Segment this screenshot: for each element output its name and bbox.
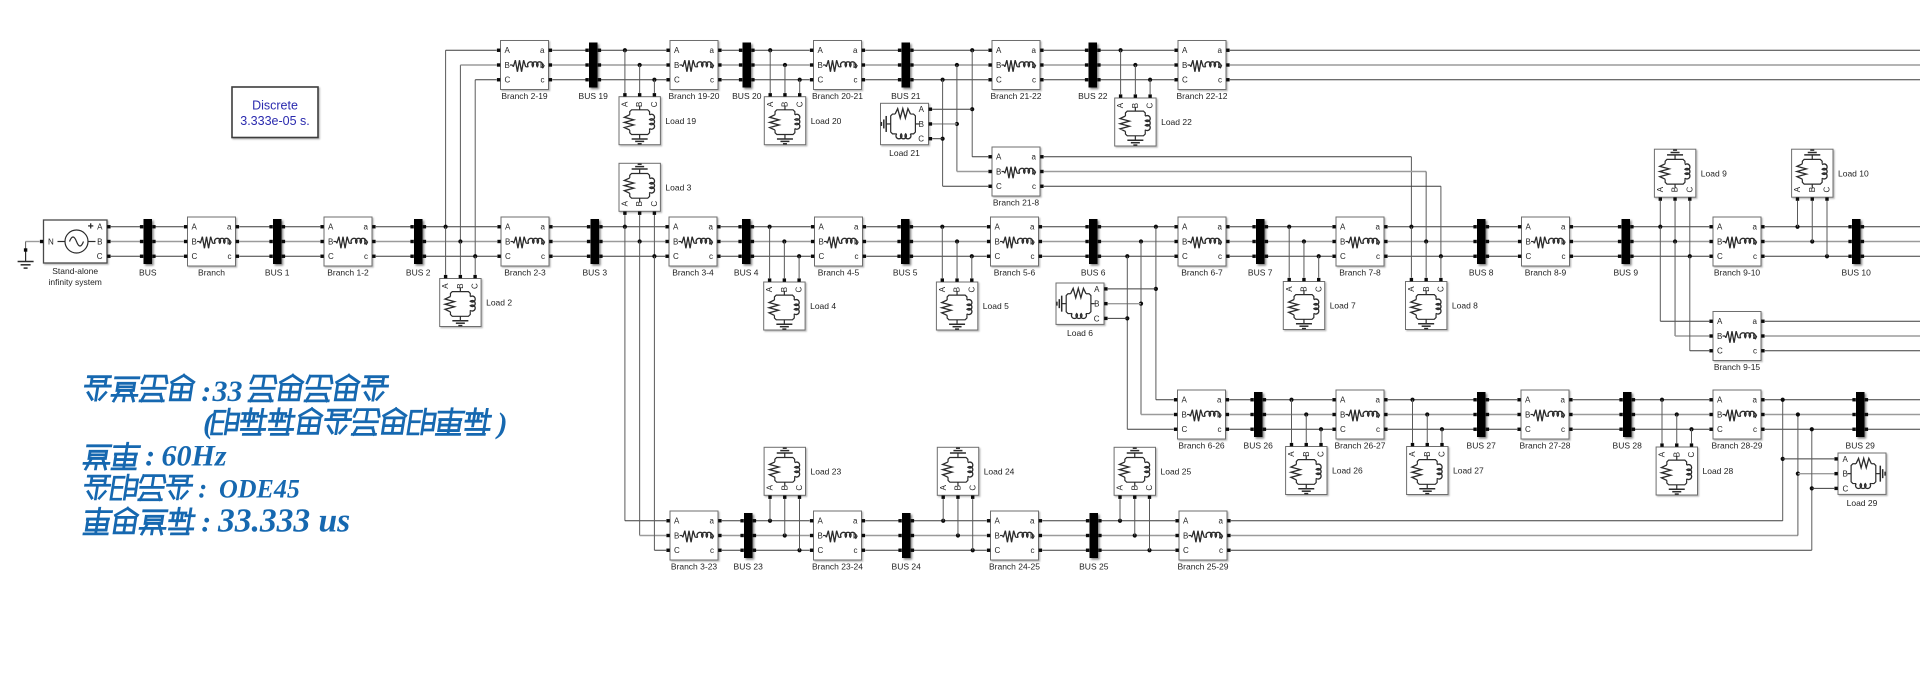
svg-text:B: B xyxy=(1717,332,1722,341)
svg-text:33: 33 xyxy=(212,375,243,408)
svg-text:Load 3: Load 3 xyxy=(665,183,691,193)
svg-text:BUS 25: BUS 25 xyxy=(1079,562,1109,572)
svg-text:33.333 us: 33.333 us xyxy=(217,503,350,540)
svg-text:B: B xyxy=(995,237,1000,246)
svg-text:B: B xyxy=(1717,237,1722,246)
svg-text:B: B xyxy=(1182,410,1187,419)
svg-text:B: B xyxy=(328,237,333,246)
svg-text:BUS 20: BUS 20 xyxy=(732,91,762,101)
svg-text:a: a xyxy=(364,223,369,232)
svg-text:Load 10: Load 10 xyxy=(1838,168,1869,178)
svg-text:Branch 3-4: Branch 3-4 xyxy=(672,268,714,278)
svg-text:C: C xyxy=(471,283,480,289)
svg-text:C: C xyxy=(819,252,825,261)
svg-text:C: C xyxy=(795,101,804,107)
svg-text:B: B xyxy=(673,237,678,246)
svg-text:Branch 20-21: Branch 20-21 xyxy=(812,91,863,101)
svg-text:c: c xyxy=(1561,425,1565,434)
svg-text:A: A xyxy=(1116,484,1125,490)
svg-text:a: a xyxy=(1218,223,1223,232)
svg-text:Load 6: Load 6 xyxy=(1067,328,1093,338)
svg-text:A: A xyxy=(765,286,774,292)
svg-text:Load 5: Load 5 xyxy=(983,301,1009,311)
svg-text:Branch: Branch xyxy=(198,268,225,278)
svg-text:BUS 5: BUS 5 xyxy=(893,268,918,278)
svg-text:c: c xyxy=(1376,252,1380,261)
svg-text:Branch 27-28: Branch 27-28 xyxy=(1519,441,1570,451)
svg-text:a: a xyxy=(1561,396,1566,405)
svg-text:c: c xyxy=(364,252,368,261)
svg-text:N: N xyxy=(48,237,54,246)
svg-text:c: c xyxy=(1031,252,1035,261)
svg-text:A: A xyxy=(996,46,1002,55)
svg-text:A: A xyxy=(1182,46,1188,55)
svg-text:B: B xyxy=(996,167,1001,176)
svg-text:a: a xyxy=(1753,396,1758,405)
svg-text:BUS 29: BUS 29 xyxy=(1846,441,1876,451)
svg-text:BUS 24: BUS 24 xyxy=(892,562,922,572)
svg-text:Load 22: Load 22 xyxy=(1161,117,1192,127)
svg-text:C: C xyxy=(1182,76,1188,85)
svg-text:B: B xyxy=(1182,61,1187,70)
svg-text:C: C xyxy=(1183,546,1189,555)
svg-text:A: A xyxy=(328,223,334,232)
svg-text:BUS 28: BUS 28 xyxy=(1613,441,1643,451)
svg-text:A: A xyxy=(441,283,450,289)
svg-text:c: c xyxy=(710,76,714,85)
svg-text:BUS 4: BUS 4 xyxy=(734,268,759,278)
svg-text:C: C xyxy=(1182,425,1188,434)
svg-text:C: C xyxy=(1094,314,1100,323)
svg-text:Branch 5-6: Branch 5-6 xyxy=(994,268,1036,278)
svg-text:60Hz: 60Hz xyxy=(162,440,227,473)
svg-text:C: C xyxy=(505,76,511,85)
svg-text:B: B xyxy=(818,531,823,540)
svg-text:c: c xyxy=(854,546,858,555)
svg-text:c: c xyxy=(1032,76,1036,85)
svg-text:A: A xyxy=(1407,286,1416,292)
svg-text:A: A xyxy=(673,223,679,232)
svg-text:C: C xyxy=(996,76,1002,85)
svg-text:BUS 2: BUS 2 xyxy=(406,268,431,278)
svg-text:B: B xyxy=(674,531,679,540)
svg-text:3.333e-05 s.: 3.333e-05 s. xyxy=(240,114,310,128)
svg-text:A: A xyxy=(938,286,947,292)
svg-text:c: c xyxy=(1218,76,1222,85)
svg-text:c: c xyxy=(855,252,859,261)
svg-text:A: A xyxy=(1717,223,1723,232)
svg-text:Branch 19-20: Branch 19-20 xyxy=(668,91,719,101)
svg-text:C: C xyxy=(968,485,977,491)
svg-text:c: c xyxy=(1753,252,1757,261)
svg-text:c: c xyxy=(1032,182,1036,191)
svg-text:BUS 22: BUS 22 xyxy=(1078,91,1108,101)
svg-text:a: a xyxy=(1217,396,1222,405)
svg-text:Load 27: Load 27 xyxy=(1453,466,1484,476)
svg-text:BUS 3: BUS 3 xyxy=(583,268,608,278)
svg-text:B: B xyxy=(819,237,824,246)
svg-text:A: A xyxy=(1525,396,1531,405)
svg-text:c: c xyxy=(541,252,545,261)
svg-text:B: B xyxy=(818,61,823,70)
svg-text:Branch 9-15: Branch 9-15 xyxy=(1714,362,1761,372)
svg-text:c: c xyxy=(1376,425,1380,434)
svg-text:B: B xyxy=(1340,410,1345,419)
svg-text:C: C xyxy=(1438,451,1447,457)
svg-text:A: A xyxy=(1183,517,1189,526)
svg-text:C: C xyxy=(1340,425,1346,434)
svg-text:Load 8: Load 8 xyxy=(1452,301,1478,311)
svg-text::: : xyxy=(201,506,211,539)
svg-text:A: A xyxy=(1656,186,1665,192)
svg-text:Load 24: Load 24 xyxy=(984,467,1015,477)
svg-text:C: C xyxy=(1526,252,1532,261)
svg-text:Load 29: Load 29 xyxy=(1847,498,1878,508)
svg-text:a: a xyxy=(1753,317,1758,326)
svg-text:C: C xyxy=(1314,286,1323,292)
svg-text:A: A xyxy=(919,105,925,114)
svg-text:A: A xyxy=(818,517,824,526)
svg-text:A: A xyxy=(1182,396,1188,405)
svg-text:c: c xyxy=(1219,546,1223,555)
svg-text:A: A xyxy=(1843,455,1849,464)
svg-text::: : xyxy=(201,375,211,408)
svg-text:A: A xyxy=(766,484,775,490)
svg-text:C: C xyxy=(795,485,804,491)
svg-text:C: C xyxy=(1182,252,1188,261)
svg-text:c: c xyxy=(1753,425,1757,434)
svg-text:B: B xyxy=(1094,300,1099,309)
svg-text:A: A xyxy=(1340,223,1346,232)
svg-text:BUS: BUS xyxy=(139,268,157,278)
svg-text:infinity system: infinity system xyxy=(49,277,102,287)
svg-text:a: a xyxy=(854,223,859,232)
svg-text:A: A xyxy=(766,101,775,107)
svg-text:B: B xyxy=(97,237,102,246)
svg-text:B: B xyxy=(192,237,197,246)
svg-text:A: A xyxy=(505,46,511,55)
svg-text:A: A xyxy=(674,46,680,55)
svg-text:C: C xyxy=(97,252,103,261)
svg-text:Branch 22-12: Branch 22-12 xyxy=(1176,91,1227,101)
svg-text:C: C xyxy=(995,546,1001,555)
svg-text:Load 20: Load 20 xyxy=(811,116,842,126)
svg-text:Branch 21-8: Branch 21-8 xyxy=(993,198,1040,208)
svg-text:C: C xyxy=(505,252,511,261)
svg-text:C: C xyxy=(1145,485,1154,491)
svg-text:Load 23: Load 23 xyxy=(811,467,842,477)
svg-text:C: C xyxy=(1843,484,1849,493)
svg-text:Branch 3-23: Branch 3-23 xyxy=(671,562,718,572)
svg-text:c: c xyxy=(1218,425,1222,434)
svg-text:B: B xyxy=(1183,531,1188,540)
svg-text:Load 7: Load 7 xyxy=(1330,301,1356,311)
svg-text:BUS 27: BUS 27 xyxy=(1467,441,1497,451)
svg-text:BUS 10: BUS 10 xyxy=(1842,268,1872,278)
svg-text:A: A xyxy=(1287,451,1296,457)
svg-text:Load 9: Load 9 xyxy=(1701,168,1727,178)
svg-text:A: A xyxy=(674,517,680,526)
svg-text:C: C xyxy=(1823,186,1832,192)
svg-text:BUS 21: BUS 21 xyxy=(891,91,921,101)
svg-text:a: a xyxy=(1218,46,1223,55)
svg-text::: : xyxy=(145,440,155,473)
svg-text:a: a xyxy=(1030,223,1035,232)
svg-text:Stand-alone: Stand-alone xyxy=(52,266,98,276)
svg-text:A: A xyxy=(505,223,511,232)
svg-text:a: a xyxy=(1032,153,1037,162)
svg-text:Load 25: Load 25 xyxy=(1161,467,1192,477)
svg-text:a: a xyxy=(540,46,545,55)
svg-text:Branch 2-19: Branch 2-19 xyxy=(501,91,548,101)
svg-text:C: C xyxy=(1717,425,1723,434)
svg-text:a: a xyxy=(1032,46,1037,55)
svg-text:A: A xyxy=(1408,451,1417,457)
svg-text:a: a xyxy=(1561,223,1566,232)
svg-text:a: a xyxy=(853,46,858,55)
svg-text:C: C xyxy=(795,286,804,292)
svg-text:C: C xyxy=(1525,425,1531,434)
svg-text:A: A xyxy=(818,46,824,55)
svg-text:C: C xyxy=(328,252,334,261)
svg-text:A: A xyxy=(1285,286,1294,292)
svg-text:C: C xyxy=(818,546,824,555)
svg-text:B: B xyxy=(995,531,1000,540)
svg-text:Load 28: Load 28 xyxy=(1703,466,1734,476)
svg-text:Load 4: Load 4 xyxy=(810,301,836,311)
svg-text:ODE45: ODE45 xyxy=(219,475,300,504)
svg-text:C: C xyxy=(1437,286,1446,292)
svg-text:Branch 6-7: Branch 6-7 xyxy=(1181,268,1223,278)
svg-text:c: c xyxy=(854,76,858,85)
svg-text:Branch 6-26: Branch 6-26 xyxy=(1178,441,1225,451)
svg-text:C: C xyxy=(995,252,1001,261)
svg-text:A: A xyxy=(1094,285,1100,294)
svg-text:A: A xyxy=(1526,223,1532,232)
svg-text:a: a xyxy=(853,517,858,526)
svg-text:a: a xyxy=(710,517,715,526)
svg-text:A: A xyxy=(1717,396,1723,405)
svg-text:Branch 4-5: Branch 4-5 xyxy=(818,268,860,278)
svg-text:C: C xyxy=(1317,451,1326,457)
svg-text:a: a xyxy=(710,46,715,55)
svg-text:C: C xyxy=(918,135,924,144)
svg-text:B: B xyxy=(1526,237,1531,246)
svg-text:BUS 6: BUS 6 xyxy=(1081,268,1106,278)
svg-text:A: A xyxy=(1793,186,1802,192)
svg-text:C: C xyxy=(1146,102,1155,108)
svg-text:A: A xyxy=(192,223,198,232)
svg-text:BUS 8: BUS 8 xyxy=(1469,268,1494,278)
svg-text:a: a xyxy=(1219,517,1224,526)
svg-text:A: A xyxy=(1340,396,1346,405)
svg-text:A: A xyxy=(621,200,630,206)
svg-text:A: A xyxy=(97,223,103,232)
svg-text:A: A xyxy=(819,223,825,232)
svg-text:A: A xyxy=(1717,317,1723,326)
svg-text:C: C xyxy=(996,182,1002,191)
svg-text:C: C xyxy=(650,201,659,207)
svg-text:a: a xyxy=(1030,517,1035,526)
svg-text:B: B xyxy=(1182,237,1187,246)
svg-text:Branch 21-22: Branch 21-22 xyxy=(990,91,1041,101)
svg-text:c: c xyxy=(228,252,232,261)
svg-text:BUS 7: BUS 7 xyxy=(1248,268,1273,278)
svg-text:Branch 28-29: Branch 28-29 xyxy=(1711,441,1762,451)
svg-text:BUS 26: BUS 26 xyxy=(1244,441,1274,451)
svg-text:B: B xyxy=(996,61,1001,70)
svg-text:Branch 1-2: Branch 1-2 xyxy=(327,268,369,278)
svg-text:C: C xyxy=(1340,252,1346,261)
svg-text:Branch 24-25: Branch 24-25 xyxy=(989,562,1040,572)
svg-text:Branch 26-27: Branch 26-27 xyxy=(1334,441,1385,451)
svg-text:c: c xyxy=(710,546,714,555)
svg-text:Load 2: Load 2 xyxy=(486,298,512,308)
svg-text:C: C xyxy=(650,101,659,107)
svg-text:c: c xyxy=(1218,252,1222,261)
svg-text:C: C xyxy=(192,252,198,261)
svg-text:a: a xyxy=(1376,396,1381,405)
svg-text:B: B xyxy=(1717,410,1722,419)
svg-text:Load 26: Load 26 xyxy=(1332,466,1363,476)
svg-text:C: C xyxy=(673,252,679,261)
svg-text:a: a xyxy=(1376,223,1381,232)
svg-text:Branch 23-24: Branch 23-24 xyxy=(812,562,863,572)
svg-text:c: c xyxy=(1031,546,1035,555)
svg-text:BUS 1: BUS 1 xyxy=(265,268,290,278)
svg-text:Branch 2-3: Branch 2-3 xyxy=(504,268,546,278)
svg-text:c: c xyxy=(709,252,713,261)
svg-text:a: a xyxy=(1753,223,1758,232)
svg-text:A: A xyxy=(996,153,1002,162)
svg-text:B: B xyxy=(505,237,510,246)
svg-text:B: B xyxy=(1843,470,1848,479)
svg-text:B: B xyxy=(674,61,679,70)
svg-text:A: A xyxy=(995,517,1001,526)
svg-text:c: c xyxy=(1753,347,1757,356)
svg-text:BUS 23: BUS 23 xyxy=(734,562,764,572)
svg-text:C: C xyxy=(967,286,976,292)
svg-text:B: B xyxy=(1525,410,1530,419)
svg-text:B: B xyxy=(1340,237,1345,246)
svg-text:C: C xyxy=(1687,451,1696,457)
svg-text:A: A xyxy=(1182,223,1188,232)
svg-text:B: B xyxy=(919,120,924,129)
svg-text:BUS 9: BUS 9 xyxy=(1614,268,1639,278)
svg-text:A: A xyxy=(1116,102,1125,108)
svg-text:Discrete: Discrete xyxy=(252,99,298,113)
svg-text:c: c xyxy=(1562,252,1566,261)
svg-text:A: A xyxy=(621,101,630,107)
svg-text:A: A xyxy=(995,223,1001,232)
svg-text:B: B xyxy=(505,61,510,70)
svg-text:C: C xyxy=(1717,347,1723,356)
svg-text:C: C xyxy=(674,76,680,85)
svg-text:C: C xyxy=(818,76,824,85)
svg-text:C: C xyxy=(674,546,680,555)
svg-text:Branch 25-29: Branch 25-29 xyxy=(1177,562,1228,572)
svg-text:Branch 7-8: Branch 7-8 xyxy=(1339,268,1381,278)
svg-text:a: a xyxy=(541,223,546,232)
svg-text:a: a xyxy=(227,223,232,232)
svg-text:Load 21: Load 21 xyxy=(889,148,920,158)
svg-text:C: C xyxy=(1685,186,1694,192)
svg-text:BUS 19: BUS 19 xyxy=(579,91,609,101)
svg-text:A: A xyxy=(939,484,948,490)
svg-text:Branch 8-9: Branch 8-9 xyxy=(1525,268,1567,278)
svg-text:Branch 9-10: Branch 9-10 xyxy=(1714,268,1761,278)
svg-text:c: c xyxy=(541,76,545,85)
svg-text:A: A xyxy=(1658,451,1667,457)
svg-text::: : xyxy=(198,474,207,504)
svg-text:Load 19: Load 19 xyxy=(665,116,696,126)
svg-text:a: a xyxy=(709,223,714,232)
svg-text:C: C xyxy=(1717,252,1723,261)
